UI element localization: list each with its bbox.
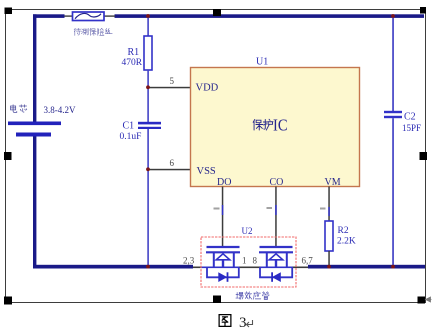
- svg-text:6: 6: [170, 158, 175, 168]
- VM pin mark: [320, 208, 326, 210]
- resistor R2: [325, 221, 333, 251]
- svg-text:8: 8: [253, 256, 258, 266]
- handle top-middle: [213, 9, 221, 16]
- U2 red dashed box: [201, 237, 296, 287]
- caption 图 3: [219, 315, 231, 327]
- wire: top rail left segment: [33, 14, 65, 18]
- wire: R1/C1 column: [147, 16, 149, 37]
- svg-text:CO: CO: [270, 177, 284, 188]
- wire: fuse left lead: [65, 15, 73, 16]
- wire: VM wire: [328, 187, 330, 222]
- svg-text:2.2K: 2.2K: [337, 236, 356, 246]
- svg-text:VM: VM: [325, 177, 341, 188]
- handle bottom-right: [418, 297, 426, 304]
- source drop: [266, 253, 268, 267]
- svg-text:VSS: VSS: [197, 166, 216, 177]
- mosfet Q-left of U2: [206, 247, 240, 277]
- paragraph mark: [247, 320, 253, 327]
- channel bar: [206, 251, 240, 253]
- wire: C2 column bottom: [392, 118, 394, 266]
- svg-text:1: 1: [242, 256, 247, 266]
- handle right-middle: [420, 152, 428, 160]
- drain drop: [286, 253, 288, 267]
- svg-text:C1: C1: [123, 120, 135, 131]
- handle top-left: [5, 8, 13, 15]
- handle left-middle: [4, 152, 12, 160]
- junction C1/pin6: [146, 167, 150, 171]
- junction top R1: [146, 14, 150, 18]
- wire: source-drain rail through FETs (dark link segments): [193, 267, 202, 269]
- battery cell plate short: [16, 133, 51, 137]
- wire: bottom rail right segment: [308, 265, 425, 269]
- CO pin mark: [267, 207, 273, 209]
- label 场效应管: [236, 292, 269, 300]
- svg-text:5: 5: [170, 76, 175, 86]
- wire: DO gate wire: [222, 187, 224, 248]
- svg-text:VDD: VDD: [196, 83, 219, 94]
- arrow stem: [222, 260, 224, 267]
- svg-text:470R: 470R: [122, 58, 143, 68]
- label 保护IC: [253, 119, 273, 130]
- junction bottom rail / R2: [327, 265, 331, 269]
- gate bar: [260, 246, 293, 248]
- wire: battery vertical top: [33, 14, 36, 121]
- wire: R2 bottom: [328, 251, 330, 266]
- wire: fuse right lead: [104, 15, 115, 16]
- body diode D-left: [218, 272, 227, 282]
- svg-text:IC: IC: [273, 116, 288, 135]
- svg-text:C2: C2: [404, 111, 416, 122]
- arrow triangle: [269, 254, 283, 260]
- arrow triangle: [216, 254, 230, 260]
- body diode D-right: [272, 272, 281, 282]
- svg-text:3: 3: [239, 315, 247, 331]
- wire: R1 bottom to C1: [147, 70, 149, 123]
- svg-text:2,3: 2,3: [183, 255, 195, 265]
- wire: C2 column top: [392, 16, 394, 111]
- handle top-right: [420, 7, 426, 14]
- mosfet Q-right of U2: [259, 247, 293, 277]
- svg-text:R2: R2: [338, 226, 349, 236]
- svg-text:R1: R1: [128, 47, 140, 58]
- resistor R1: [144, 36, 152, 70]
- pin wire 6: [148, 169, 191, 171]
- wire: top rail right segment: [115, 14, 425, 18]
- op IC U1 box: [191, 68, 360, 187]
- arrow stem: [275, 260, 277, 267]
- wire: FET source-drain bars (blue): [202, 267, 240, 269]
- handle bottom-left: [4, 297, 12, 305]
- svg-text:15PF: 15PF: [402, 123, 421, 133]
- drain drop: [233, 253, 235, 267]
- capacitor C2: [384, 111, 402, 113]
- mouse cursor arrow: [426, 297, 432, 302]
- junction bottom rail / C2: [391, 265, 395, 269]
- body diode loop: [260, 267, 292, 277]
- label 待测保险丝: [74, 28, 112, 35]
- junction top C2: [391, 14, 395, 18]
- fuse (device under test): [73, 12, 105, 21]
- wire: battery vertical bottom: [33, 137, 36, 269]
- svg-text:3.8-4.2V: 3.8-4.2V: [44, 105, 76, 115]
- junction R1/pin5: [146, 85, 150, 89]
- svg-text:DO: DO: [217, 177, 231, 188]
- capacitor C1: [138, 122, 161, 125]
- body diode loop: [207, 267, 239, 277]
- svg-text:6,7: 6,7: [302, 255, 314, 265]
- svg-text:U1: U1: [256, 56, 268, 67]
- gate bar: [207, 246, 240, 248]
- label 电芯: [11, 105, 27, 113]
- handle bottom-middle: [213, 296, 221, 304]
- channel bar: [259, 251, 293, 253]
- source drop: [213, 253, 215, 267]
- junction bottom rail / C1 column: [146, 265, 150, 269]
- pin wire 5: [148, 87, 191, 89]
- wire: C1 bottom to rail: [147, 129, 149, 266]
- svg-text:U2: U2: [242, 226, 253, 236]
- battery cell plate long: [8, 122, 61, 126]
- DO pin mark: [214, 208, 220, 210]
- wire: bottom rail left segment: [33, 265, 193, 269]
- wire: CO gate wire: [275, 187, 277, 248]
- svg-text:0.1uF: 0.1uF: [120, 132, 142, 142]
